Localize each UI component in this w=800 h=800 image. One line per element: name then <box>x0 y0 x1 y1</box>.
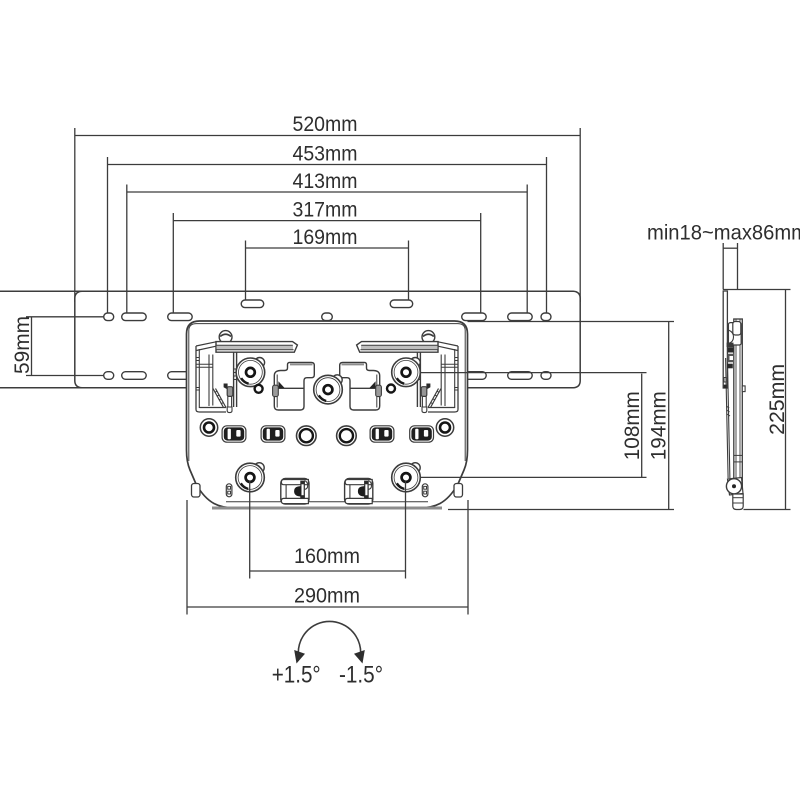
plate slot <box>122 313 147 321</box>
svg-text:453mm: 453mm <box>293 143 358 166</box>
dimension 108mm leaders <box>420 372 646 374</box>
knob center <box>314 375 343 404</box>
middle row: big ring left <box>297 426 317 446</box>
dimension 290mm <box>187 500 468 615</box>
boot diagonal <box>213 389 226 408</box>
side view wall plate <box>723 291 727 388</box>
svg-text:+1.5°: +1.5° <box>272 662 321 689</box>
dimension 59mm <box>11 316 104 376</box>
svg-text:108mm: 108mm <box>621 391 644 460</box>
dimension 413mm <box>127 170 527 314</box>
svg-text:-1.5°: -1.5° <box>339 662 383 689</box>
knob top-right <box>392 358 421 387</box>
small screw left <box>255 385 263 393</box>
side view foot <box>733 494 743 510</box>
middle row: small ring left <box>200 419 217 436</box>
middle row: clip 3 <box>370 426 394 442</box>
dimension 169mm <box>246 226 409 301</box>
right side tab <box>454 484 463 498</box>
bracket bottom inner line <box>226 501 428 503</box>
left C cutout <box>273 362 315 410</box>
plate slot upper 169 row left <box>241 300 264 308</box>
wall plate outline with right rounded corners, edges extended to image left <box>0 291 580 388</box>
side view mid bump <box>742 386 745 392</box>
bottom clip left <box>281 479 309 505</box>
plate slot <box>508 313 533 321</box>
dimension 317mm <box>173 199 480 314</box>
side view tilt arm <box>726 358 730 478</box>
plate round hole right <box>541 313 551 321</box>
plate hole row bottom <box>104 372 114 380</box>
dimension 194mm <box>468 321 675 323</box>
dimension 520mm <box>75 113 581 302</box>
svg-text:min18~max86mm: min18~max86mm <box>647 222 800 245</box>
plate slot upper 169 row right <box>390 300 413 308</box>
left small pill <box>226 484 232 497</box>
bracket inner outline <box>189 324 465 461</box>
svg-text:225mm: 225mm <box>766 364 789 435</box>
knob bottom-left <box>236 463 265 492</box>
side view pivot <box>726 478 743 496</box>
middle row: clip 2 <box>261 426 285 442</box>
left rail <box>419 352 421 407</box>
left latch dome <box>219 331 232 344</box>
right latch dome <box>422 331 435 344</box>
svg-text:317mm: 317mm <box>293 199 358 222</box>
middle row: clip 4 <box>410 426 434 442</box>
middle row: clip 1 <box>222 426 246 442</box>
bracket bottom thick edge <box>212 507 442 510</box>
plate center hole <box>322 313 333 321</box>
left side tab <box>192 484 201 498</box>
side view top latch block <box>727 322 742 369</box>
plate slot <box>168 313 193 321</box>
right C cutout <box>340 362 382 410</box>
middle row: big ring right <box>337 426 357 446</box>
small screw right <box>387 385 395 393</box>
side view main bar <box>734 319 743 494</box>
svg-text:520mm: 520mm <box>293 113 358 136</box>
svg-text:169mm: 169mm <box>293 226 358 249</box>
bracket body <box>187 321 468 508</box>
wall plate left edge <box>75 291 82 388</box>
right channel assembly <box>417 342 458 413</box>
svg-text:160mm: 160mm <box>294 545 360 568</box>
side view arm hatches <box>726 406 730 416</box>
right rail <box>233 352 235 407</box>
plate hole row top: round hole left <box>104 313 114 321</box>
svg-text:59mm: 59mm <box>11 316 34 374</box>
knob top-left <box>236 358 265 387</box>
svg-text:290mm: 290mm <box>294 585 360 608</box>
svg-text:413mm: 413mm <box>293 170 358 193</box>
middle row: small ring right <box>436 419 453 436</box>
left latch bar <box>216 342 297 353</box>
svg-text:194mm: 194mm <box>648 391 671 460</box>
plate slot <box>462 313 487 321</box>
knob bottom-right <box>392 463 421 492</box>
dimension 225mm <box>723 290 791 510</box>
left channel assembly <box>196 342 237 413</box>
dimension 453mm <box>108 143 547 314</box>
right latch bar <box>357 342 438 353</box>
tilt arc symbol <box>294 621 365 663</box>
boot diagonal <box>428 389 441 408</box>
dimension 160mm <box>250 481 406 579</box>
right small pill <box>422 484 428 497</box>
side view: min/max depth dimension <box>647 222 800 290</box>
side view plate foot <box>724 378 727 389</box>
bottom clip right <box>345 479 373 505</box>
